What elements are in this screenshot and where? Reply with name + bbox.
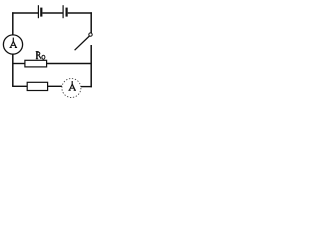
- ammeter A2 pointer needle: [71, 81, 73, 85]
- ammeter A1 pointer needle: [12, 38, 14, 43]
- wire right vertical lower (below switch to bottom corner): [90, 45, 92, 87]
- resistor R0 box: [25, 60, 47, 67]
- wire from resistor to dashed ammeter: [48, 85, 62, 87]
- battery cell 1 long plate (+): [37, 5, 39, 18]
- wire bottom branch left lead: [12, 85, 27, 87]
- battery cell 1 short thick plate (-): [40, 8, 42, 17]
- wire top-left (battery left lead): [12, 12, 38, 14]
- battery cell 2 long plate (+): [62, 5, 64, 18]
- resistor R (unlabeled) box: [27, 82, 47, 90]
- wire middle branch right lead: [47, 63, 92, 65]
- ammeter A2 dashed circle: [62, 79, 81, 98]
- ammeter A2 letter A: [68, 84, 76, 90]
- switch S open blade: [75, 36, 90, 50]
- switch S pivot circle: [89, 33, 92, 36]
- wire left vertical upper (corner to ammeter): [12, 12, 14, 35]
- wire top-right (battery right lead): [68, 12, 92, 14]
- battery cell 2 short thick plate (-): [66, 8, 68, 17]
- wire right vertical upper (corner to switch pivot): [90, 12, 92, 33]
- wire middle branch left lead: [13, 63, 25, 65]
- wire from dashed ammeter to right vertical: [81, 86, 92, 88]
- wire left vertical lower (ammeter to bottom corner): [12, 54, 14, 86]
- ammeter A1 letter A: [10, 41, 18, 47]
- wire between cells: [42, 12, 63, 14]
- label R0: [36, 51, 45, 59]
- ammeter A1 circle: [3, 35, 22, 54]
